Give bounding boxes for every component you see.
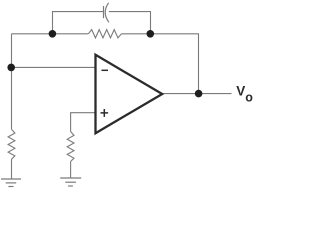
- node: junction dot at output: [195, 90, 203, 98]
- wire: R1 bottom lead: [11, 159, 13, 179]
- svg-text:o: o: [245, 91, 253, 105]
- capacitor C feedback: curved plate: [105, 3, 109, 23]
- capacitor C feedback: straight plate: [103, 6, 105, 18]
- node: junction dot at inverting input tap: [7, 64, 15, 72]
- ground (left): [1, 179, 21, 187]
- wire: R2 bottom lead: [70, 162, 72, 179]
- ground (right): [60, 178, 81, 186]
- wire: feedback resistor branch left lead: [12, 33, 89, 35]
- wire: feedback resistor branch right lead to output rail: [121, 34, 198, 94]
- op-amp inverting label (minus): [102, 69, 109, 71]
- resistor R feedback zigzag: [88, 30, 121, 38]
- wire: inverting input: [12, 66, 97, 68]
- op-amp non-inverting label (plus): [101, 109, 109, 117]
- resistor R1 (left, to ground) zigzag: [8, 129, 15, 159]
- wire: non-inverting input: [71, 113, 97, 132]
- wire: top capacitor branch right segment: [109, 12, 151, 34]
- op-amp U1 triangle: [96, 55, 163, 133]
- resistor R2 (non-inverting, to ground) zigzag: [67, 132, 74, 162]
- svg-text:V: V: [236, 84, 245, 99]
- wire: top capacitor branch left segment: [53, 12, 104, 34]
- node: junction dot at cap/resistor branch right: [147, 30, 155, 38]
- wire: left rail vertical: [11, 34, 13, 129]
- wire: op-amp output: [163, 93, 231, 95]
- node: junction dot at cap/resistor branch left: [49, 30, 57, 38]
